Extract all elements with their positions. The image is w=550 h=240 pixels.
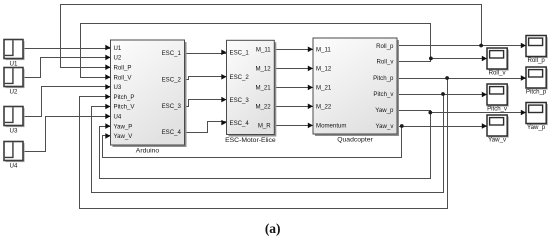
scope block Roll_v xyxy=(487,48,509,77)
svg-text:Pitch_v: Pitch_v xyxy=(373,91,394,98)
input arrow ESC-Motor-Elice ESC_4 xyxy=(221,120,226,126)
wire Yaw_p Quadcopter to Yaw_p scope xyxy=(398,111,527,113)
svg-text:ESC_3: ESC_3 xyxy=(230,97,250,104)
svg-text:M_21: M_21 xyxy=(255,85,271,92)
svg-text:U1: U1 xyxy=(10,61,18,68)
input arrow scope Yaw_v xyxy=(482,123,487,129)
svg-text:U3: U3 xyxy=(114,84,122,91)
input arrow Quadcopter M_21 xyxy=(308,85,313,91)
input arrow Quadcopter M_11 xyxy=(308,47,313,53)
input arrow scope Roll_p xyxy=(521,43,526,49)
input arrow Arduino Yaw_P xyxy=(105,123,110,129)
subsystem block Arduino xyxy=(111,40,187,155)
scope block Yaw_p xyxy=(526,103,548,132)
wire M_21 ESC-Motor-Elice to Quadcopter xyxy=(275,87,314,89)
svg-text:Momentum: Momentum xyxy=(316,123,346,130)
svg-text:Arduino: Arduino xyxy=(136,148,160,155)
svg-text:M_22: M_22 xyxy=(255,104,271,111)
subsystem block Quadcopter xyxy=(313,38,399,144)
svg-text:M_12: M_12 xyxy=(316,66,332,73)
svg-text:Yaw_p: Yaw_p xyxy=(375,107,394,114)
svg-text:ESC_4: ESC_4 xyxy=(162,129,182,136)
svg-text:Roll_p: Roll_p xyxy=(376,43,394,50)
svg-text:M_22: M_22 xyxy=(316,104,332,111)
svg-text:ESC_1: ESC_1 xyxy=(162,50,182,57)
svg-text:M_R: M_R xyxy=(258,123,271,130)
input arrow Quadcopter M_22 xyxy=(308,104,313,110)
svg-text:U2: U2 xyxy=(10,89,18,96)
scope block Pitch_p xyxy=(526,67,548,96)
svg-text:M_21: M_21 xyxy=(316,85,332,92)
input arrow Arduino U4 xyxy=(105,114,110,120)
input arrow ESC-Motor-Elice ESC_1 xyxy=(221,50,226,56)
scope block Roll_p xyxy=(526,36,548,65)
source block U3 (step input) xyxy=(4,107,25,135)
svg-text:Pitch_V: Pitch_V xyxy=(114,104,136,111)
svg-text:M_11: M_11 xyxy=(316,47,331,54)
input arrow Arduino U1 xyxy=(105,45,110,51)
junction dot Yaw_p branch xyxy=(428,111,432,115)
svg-text:ESC_2: ESC_2 xyxy=(162,77,182,84)
svg-text:M_11: M_11 xyxy=(256,47,271,54)
input arrow scope Roll_v xyxy=(482,56,487,62)
wire ESC_3 Arduino to ESC-Motor-Elice xyxy=(185,100,227,107)
source block U2 (step input) xyxy=(4,68,25,96)
svg-text:Yaw_v: Yaw_v xyxy=(488,137,507,144)
wire U1 source to Arduino input U1 xyxy=(24,48,111,50)
wire Roll_p Quadcopter to Roll_p scope xyxy=(398,45,527,47)
svg-text:Roll_p: Roll_p xyxy=(527,57,545,64)
input arrow Arduino Roll_V xyxy=(105,74,110,80)
wire U3 source to Arduino input U3 xyxy=(24,87,111,117)
input arrow Arduino U3 xyxy=(105,84,110,90)
svg-text:ESC-Motor-Elice: ESC-Motor-Elice xyxy=(225,137,276,144)
wire Roll_v Quadcopter to Roll_v scope xyxy=(398,59,488,62)
junction dot Roll_p branch xyxy=(479,44,483,48)
svg-text:ESC_1: ESC_1 xyxy=(230,50,250,57)
wire M_11 ESC-Motor-Elice to Quadcopter xyxy=(275,49,314,51)
svg-text:ESC_4: ESC_4 xyxy=(230,120,250,127)
svg-text:Roll_P: Roll_P xyxy=(114,64,132,71)
scope block Yaw_v xyxy=(487,115,509,144)
svg-text:Pitch_v: Pitch_v xyxy=(487,106,508,113)
svg-text:ESC_2: ESC_2 xyxy=(230,74,250,81)
wire M_22 ESC-Motor-Elice to Quadcopter xyxy=(275,106,314,108)
svg-text:U4: U4 xyxy=(10,163,18,170)
input arrow scope Yaw_p xyxy=(521,110,526,116)
svg-text:U1: U1 xyxy=(114,45,122,52)
svg-text:(a): (a) xyxy=(265,221,281,236)
wire M_12 ESC-Motor-Elice to Quadcopter xyxy=(275,68,314,70)
input arrow Arduino Roll_P xyxy=(105,64,110,70)
source block U4 (step input) xyxy=(4,142,25,170)
svg-text:U3: U3 xyxy=(10,128,18,135)
svg-text:Roll_v: Roll_v xyxy=(489,70,507,77)
junction dot Pitch_v branch xyxy=(441,92,445,96)
junction dot Roll_v branch xyxy=(429,57,433,61)
input arrow Arduino U2 xyxy=(105,55,110,61)
input arrow Quadcopter Momentum xyxy=(308,123,313,129)
svg-text:Quadcopter: Quadcopter xyxy=(337,137,373,144)
wire Yaw_p feedback to Arduino Yaw_P (bottom loop) xyxy=(100,113,431,179)
wire U2 source to Arduino input U2 xyxy=(24,58,111,78)
svg-text:Yaw_p: Yaw_p xyxy=(527,124,546,131)
wire Pitch_v Quadcopter to Pitch_v scope xyxy=(398,94,488,96)
svg-text:Yaw_P: Yaw_P xyxy=(114,123,133,130)
svg-text:Pitch_P: Pitch_P xyxy=(114,94,135,101)
input arrow ESC-Motor-Elice ESC_3 xyxy=(221,97,226,103)
input arrow scope Pitch_v xyxy=(482,92,487,98)
subsystem block ESC-Motor-Elice xyxy=(225,40,276,144)
svg-text:Pitch_p: Pitch_p xyxy=(526,89,547,96)
input arrow Arduino Pitch_P xyxy=(105,94,110,100)
svg-text:Pitch_p: Pitch_p xyxy=(373,75,394,82)
scope block Pitch_v xyxy=(487,84,509,113)
input arrow Quadcopter M_12 xyxy=(308,66,313,72)
input arrow ESC-Motor-Elice ESC_2 xyxy=(221,74,226,80)
input arrow scope Pitch_p xyxy=(521,75,526,81)
wire ESC_2 Arduino to ESC-Motor-Elice xyxy=(185,77,227,80)
junction dot Pitch_p branch xyxy=(445,76,449,80)
svg-text:Roll_v: Roll_v xyxy=(376,59,394,66)
svg-text:U2: U2 xyxy=(114,55,122,62)
wire Pitch_v feedback to Arduino Pitch_V (bottom loop) xyxy=(92,95,444,193)
input arrow Arduino Yaw_V xyxy=(105,133,110,139)
wire M_R to Momentum ESC-Motor-Elice to Quadcopter xyxy=(275,125,314,127)
source block U1 (step input) xyxy=(4,40,25,68)
svg-text:ESC_3: ESC_3 xyxy=(162,103,182,110)
wire Yaw_v Quadcopter to Yaw_v scope xyxy=(398,126,488,128)
input arrow Arduino Pitch_V xyxy=(105,104,110,110)
wire ESC_4 Arduino to ESC-Motor-Elice xyxy=(185,122,227,133)
wire U4 source to Arduino input U4 xyxy=(24,117,111,152)
svg-text:Yaw_V: Yaw_V xyxy=(114,133,134,140)
wire Pitch_p Quadcopter to Pitch_p scope xyxy=(398,78,527,80)
svg-text:M_12: M_12 xyxy=(255,66,271,73)
wire Pitch_p feedback to Arduino Pitch_P (bottom outer loop) xyxy=(80,79,448,209)
svg-text:Roll_V: Roll_V xyxy=(114,74,133,81)
wire Roll_v feedback to Arduino Roll_V (top inner loop) xyxy=(81,24,431,78)
wire Yaw_v feedback to Arduino Yaw_V (bottom inner loop) xyxy=(103,127,402,158)
junction dot Yaw_v branch xyxy=(400,124,404,128)
svg-text:U4: U4 xyxy=(114,114,122,121)
svg-text:Yaw_v: Yaw_v xyxy=(376,123,395,130)
wire ESC_1 Arduino to ESC-Motor-Elice xyxy=(185,53,227,55)
wire Roll_p feedback to Arduino Roll_P (top outer loop) xyxy=(61,5,482,68)
